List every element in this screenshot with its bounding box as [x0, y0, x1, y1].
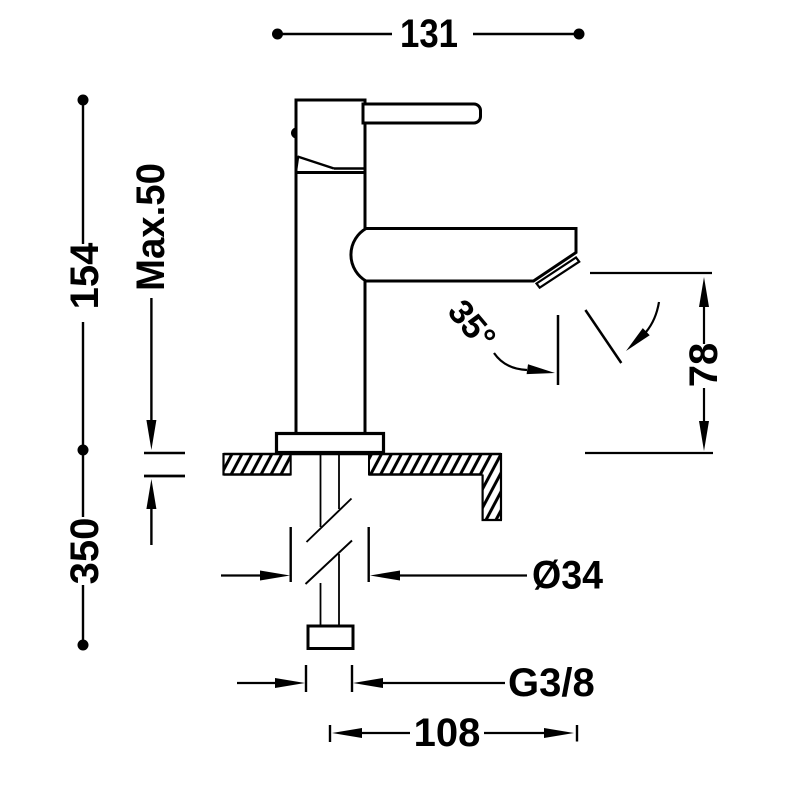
- dimension 154 top dot: [78, 95, 89, 106]
- dimension G3/8 left shaft: [237, 682, 277, 684]
- dimension 350 lower segment: [82, 585, 84, 645]
- threaded rod right line lower: [338, 554, 340, 626]
- dimension O34 right shaft: [399, 574, 527, 576]
- body lower-left slant edge: [296, 157, 298, 173]
- angle 35 slanted line: [585, 310, 621, 363]
- dimension G3/8 right shaft: [382, 682, 505, 684]
- counter bottom extension tick: [144, 475, 185, 478]
- body chamfer base line: [334, 167, 365, 170]
- svg-text:154: 154: [63, 242, 107, 309]
- threaded rod left line upper: [320, 452, 322, 527]
- dimension 78 bottom reference line: [585, 452, 713, 454]
- dimension O34 left extension tick: [290, 527, 292, 582]
- dimension G3/8 right-pointing arrowhead: [275, 678, 305, 688]
- dimension G3/8 right extension tick: [351, 665, 353, 692]
- threaded rod left line lower: [320, 583, 322, 626]
- dimension 131 left dot: [272, 29, 283, 40]
- body left bump: [291, 128, 297, 139]
- counter leg inner edge: [482, 475, 484, 521]
- dimension 154 line lower segment: [82, 322, 84, 450]
- dimension 78 upper shaft: [703, 305, 705, 344]
- counter bottom line left: [224, 473, 291, 476]
- counter top surface line: [224, 453, 502, 456]
- dimension 108 right extension tick: [576, 725, 578, 742]
- dimension 108 right-pointing arrowhead: [544, 728, 574, 738]
- counter bottom line right: [369, 473, 483, 476]
- svg-text:G3/8: G3/8: [508, 661, 595, 705]
- dimension 350 bottom dot: [78, 640, 89, 651]
- dimension 131 right dot: [574, 29, 585, 40]
- threaded rod right line upper: [338, 452, 340, 509]
- spout outline: [351, 229, 576, 282]
- svg-text:131: 131: [400, 12, 458, 56]
- rod break diagonal lower: [306, 541, 353, 585]
- counter top extension tick: [144, 452, 185, 454]
- dimension 108 left extension tick: [329, 725, 331, 742]
- counter hatched band left part: [224, 454, 291, 474]
- svg-text:Max.50: Max.50: [129, 163, 173, 291]
- svg-text:Ø34: Ø34: [532, 554, 604, 598]
- counter leg bottom cap: [482, 519, 503, 521]
- dimension Max.50 upper shaft: [150, 298, 152, 423]
- svg-text:350: 350: [63, 518, 107, 585]
- counter hole left edge: [290, 454, 292, 476]
- angle 35 vertical tick: [557, 315, 560, 385]
- dimension 108 right shaft: [484, 732, 546, 734]
- dimension 131 line right segment: [473, 33, 579, 35]
- base flange: [277, 434, 384, 453]
- faucet column left edge: [295, 173, 298, 434]
- counter left end cap: [222, 453, 224, 476]
- dimension 131 line left segment: [277, 33, 392, 35]
- dimension 154 bottom dot: [78, 445, 89, 456]
- angle 35 left arc arrow curve: [494, 353, 527, 370]
- rod break diagonal upper: [307, 499, 352, 543]
- dimension Max.50 down arrowhead: [146, 420, 156, 450]
- dimension 78 top reference line: [590, 272, 712, 274]
- body chamfer diagonal: [298, 157, 335, 169]
- dimension 78 down arrowhead: [699, 421, 709, 451]
- dimension 154 line upper segment: [82, 100, 84, 244]
- angle 35 right arc arrow curve: [646, 302, 659, 332]
- faucet column right edge upper: [364, 173, 367, 231]
- dimension O34 right arrowhead pointing left-tick: [260, 571, 290, 581]
- dimension G3/8 left-pointing arrowhead: [353, 678, 383, 688]
- aerator band: [537, 258, 580, 288]
- dimension 78 up arrowhead: [699, 277, 709, 307]
- faucet column right edge lower: [364, 280, 367, 434]
- supply nut: [308, 626, 353, 649]
- dimension O34 left-pointing arrowhead: [370, 571, 400, 581]
- dimension O34 left shaft: [221, 574, 262, 576]
- angle 35 right arrowhead: [626, 328, 650, 351]
- counter hatched right leg: [483, 474, 501, 520]
- svg-text:78: 78: [682, 343, 726, 388]
- counter hole right edge: [368, 454, 370, 476]
- dimension Max.50 lower shaft: [150, 506, 152, 545]
- svg-text:108: 108: [414, 711, 481, 755]
- angle 35 left arrowhead: [527, 364, 555, 374]
- dimension O34 right extension tick: [368, 527, 370, 582]
- dimension 350 upper segment: [82, 450, 84, 517]
- counter hatched band right part: [369, 454, 501, 474]
- dimension 108 left shaft: [361, 732, 410, 734]
- cartridge body: [296, 100, 365, 173]
- dimension 108 left-pointing arrowhead: [332, 728, 362, 738]
- dimension 78 lower shaft: [703, 388, 705, 424]
- dimension Max.50 up arrowhead: [146, 479, 156, 509]
- counter right outer edge: [500, 453, 502, 520]
- handle lever: [363, 104, 481, 123]
- dimension G3/8 left extension tick: [305, 665, 307, 692]
